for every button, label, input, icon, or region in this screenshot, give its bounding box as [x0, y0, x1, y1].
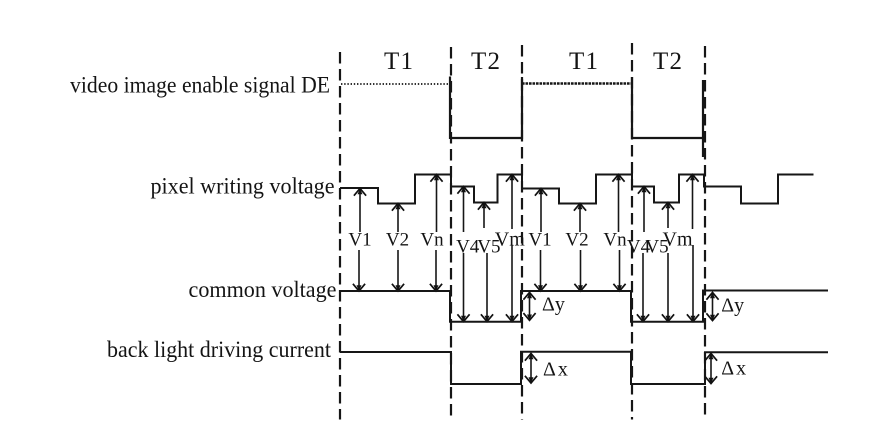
back light driving current waveform — [340, 352, 828, 384]
down arrow V1 (first T1) — [358, 250, 360, 291]
down arrow V5 (second T2) — [667, 253, 669, 322]
up arrow V1 (first T1) — [359, 189, 361, 233]
down arrow V4 (second T2) — [642, 253, 644, 322]
dashed vertical timing boundary line 1 (x=340) — [339, 52, 341, 420]
svg-text:Δx: Δx — [721, 358, 748, 380]
up arrow V1 (second T1) — [540, 189, 542, 233]
svg-text:T2: T2 — [653, 48, 682, 75]
DE waveform falling edge at x=450 — [449, 77, 451, 140]
svg-text:T1: T1 — [384, 48, 413, 75]
svg-text:Vn: Vn — [420, 230, 444, 251]
DE waveform high segment second T1 — [522, 82, 632, 84]
down arrow V1 (second T1) — [540, 250, 542, 291]
up arrow V2 (first T1) — [397, 204, 399, 233]
up arrow V5 (second T2) — [667, 203, 669, 229]
svg-text:V4: V4 — [456, 237, 480, 258]
DE waveform rising edge at x=703 — [702, 80, 704, 157]
up arrow Vn (second T1) — [618, 175, 620, 233]
svg-text:T1: T1 — [569, 48, 598, 75]
down arrow Vn (second T1) — [619, 250, 621, 291]
svg-text:V1: V1 — [528, 230, 551, 251]
svg-text:back light driving current: back light driving current — [107, 337, 331, 363]
svg-text:video image enable signal DE: video image enable signal DE — [70, 73, 330, 99]
svg-text:Vn: Vn — [603, 230, 627, 251]
DE waveform falling edge at x=632 — [631, 77, 633, 139]
dashed vertical timing boundary line 2 (x=451) — [450, 47, 452, 420]
down arrow Vm (first T2) — [511, 245, 513, 322]
up arrow V4 (first T2) — [463, 187, 465, 233]
svg-text:Vm: Vm — [663, 229, 693, 251]
up arrow Vm (second T2) — [692, 175, 694, 230]
up arrow V2 (second T1) — [579, 204, 581, 233]
dashed vertical timing boundary line 4 (x=632) — [631, 43, 633, 420]
down arrow V2 (first T1) — [397, 250, 399, 291]
down arrow V5 (first T2) — [486, 253, 488, 322]
delta-y double arrow (second) — [712, 293, 714, 321]
up arrow Vn (first T1) — [436, 175, 438, 233]
svg-text:Δx: Δx — [543, 359, 570, 381]
svg-text:Δy: Δy — [721, 294, 744, 316]
common voltage waveform — [340, 291, 828, 322]
dashed vertical timing boundary line 5 (x=705) — [704, 46, 706, 420]
svg-text:T2: T2 — [471, 48, 500, 75]
svg-text:pixel writing voltage: pixel writing voltage — [151, 174, 335, 200]
DE waveform low segment second T2 — [632, 137, 703, 139]
down arrow Vm (second T2) — [692, 245, 694, 322]
down arrow V2 (second T1) — [580, 250, 582, 291]
down arrow V4 (first T2) — [463, 253, 465, 322]
delta-x double arrow (first) — [530, 354, 532, 384]
svg-text:Vm: Vm — [495, 229, 525, 251]
svg-text:V1: V1 — [348, 230, 371, 251]
DE waveform high segment T1 (dotted) — [341, 83, 450, 85]
svg-text:Δy: Δy — [542, 294, 565, 316]
pixel writing voltage waveform — [340, 175, 814, 204]
down arrow Vn (first T1) — [435, 250, 437, 291]
up arrow V4 (second T2) — [643, 187, 645, 233]
svg-text:common voltage: common voltage — [189, 277, 337, 303]
svg-text:V2: V2 — [565, 230, 588, 251]
up arrow V5 (first T2) — [483, 203, 485, 229]
up arrow Vm (first T2) — [511, 175, 513, 230]
delta-x double arrow (second) — [710, 354, 712, 384]
delta-y double arrow (first) — [529, 293, 531, 321]
dashed vertical timing boundary line 3 (x=522) — [521, 45, 523, 420]
svg-text:V2: V2 — [386, 230, 409, 251]
DE waveform rising edge at x=522 — [521, 77, 523, 139]
DE waveform low segment T2 — [450, 137, 522, 139]
